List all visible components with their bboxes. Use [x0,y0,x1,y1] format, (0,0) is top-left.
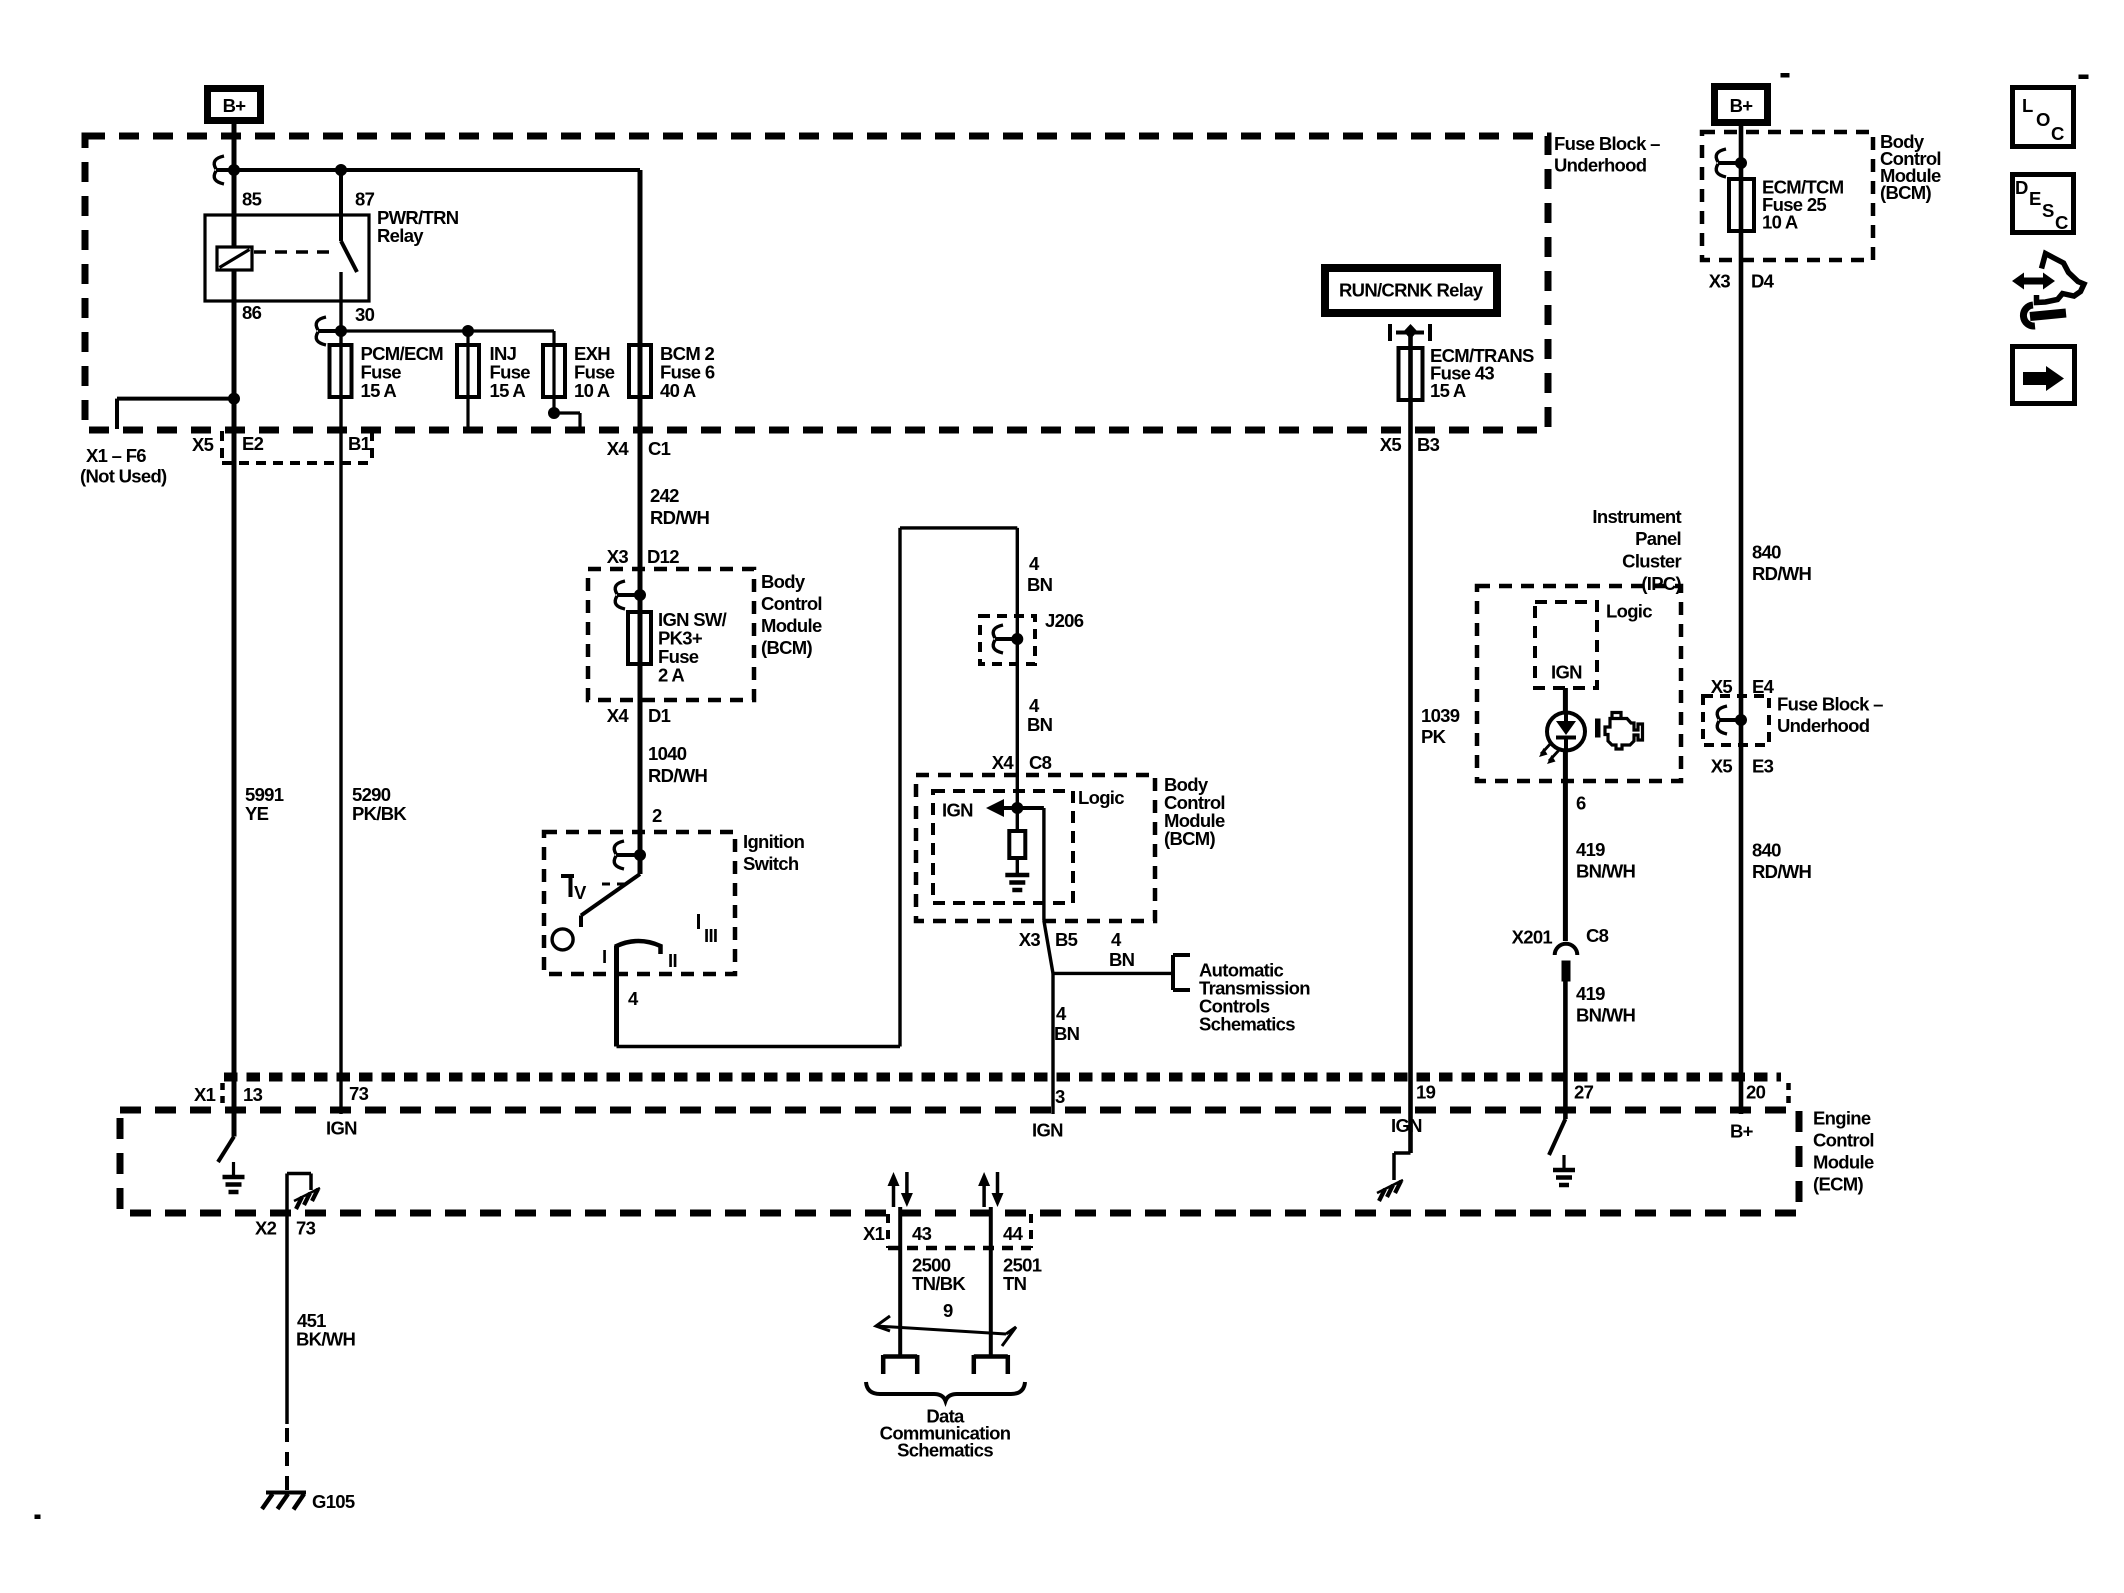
svg-text:J206: J206 [1045,610,1084,631]
svg-text:BK/WH: BK/WH [296,1329,356,1350]
svg-text:(IPC): (IPC) [1641,573,1681,594]
svg-text:B+: B+ [1730,95,1754,116]
svg-text:BN: BN [1027,714,1053,735]
svg-text:Underhood: Underhood [1777,715,1870,736]
svg-text:(BCM): (BCM) [761,637,812,658]
svg-text:X3: X3 [607,546,629,567]
svg-text:Fuse Block –: Fuse Block – [1554,133,1660,154]
svg-text:4: 4 [1056,1003,1067,1024]
svg-text:X3: X3 [1019,929,1041,950]
svg-text:1039: 1039 [1421,705,1460,726]
svg-text:2: 2 [652,805,662,826]
svg-text:B5: B5 [1055,929,1078,950]
svg-text:Body: Body [761,571,806,592]
svg-text:15 A: 15 A [1430,380,1466,401]
svg-text:5991: 5991 [245,784,284,805]
svg-text:C1: C1 [648,438,671,459]
svg-text:5290: 5290 [352,784,391,805]
svg-text:RUN/CRNK Relay: RUN/CRNK Relay [1339,280,1484,301]
svg-text:B3: B3 [1417,434,1440,455]
svg-text:Schematics: Schematics [1199,1014,1295,1035]
svg-text:Relay: Relay [377,225,424,246]
svg-text:19: 19 [1416,1082,1436,1103]
svg-text:X201: X201 [1512,927,1553,948]
svg-text:C: C [2051,123,2064,144]
svg-text:Switch: Switch [743,853,799,874]
svg-text:X4: X4 [992,752,1015,773]
svg-text:Cluster: Cluster [1622,551,1681,572]
svg-text:BN: BN [1054,1023,1080,1044]
svg-text:B+: B+ [223,95,247,116]
svg-text:4: 4 [1111,929,1122,950]
svg-text:10 A: 10 A [574,380,610,401]
svg-text:Panel: Panel [1635,528,1681,549]
svg-text:YE: YE [245,803,269,824]
svg-text:X2: X2 [255,1218,277,1239]
svg-text:Control: Control [761,593,822,614]
svg-text:X4: X4 [607,438,630,459]
svg-text:X5: X5 [192,434,214,455]
svg-text:IGN: IGN [326,1118,357,1139]
svg-text:X1 – F6: X1 – F6 [86,445,146,466]
svg-text:Logic: Logic [1078,787,1124,808]
svg-text:43: 43 [912,1223,932,1244]
svg-text:D: D [2015,177,2028,198]
svg-text:419: 419 [1576,983,1605,1004]
svg-text:C8: C8 [1029,752,1052,773]
svg-text:15 A: 15 A [490,380,526,401]
svg-text:4: 4 [1029,553,1040,574]
svg-text:S: S [2042,200,2054,221]
svg-text:85: 85 [242,189,262,210]
svg-text:TN/BK: TN/BK [912,1273,966,1294]
svg-text:E4: E4 [1752,676,1775,697]
svg-text:E2: E2 [242,433,264,454]
svg-text:Module: Module [1813,1152,1874,1173]
svg-text:Engine: Engine [1813,1108,1871,1129]
svg-text:B1: B1 [348,433,371,454]
svg-text:E: E [2029,188,2041,209]
svg-text:BN: BN [1109,949,1135,970]
svg-text:Fuse Block –: Fuse Block – [1777,694,1883,715]
svg-text:X5: X5 [1711,676,1733,697]
svg-text:87: 87 [355,189,375,210]
svg-text:BN/WH: BN/WH [1576,861,1636,882]
svg-text:10 A: 10 A [1762,212,1798,233]
svg-text:86: 86 [242,302,262,323]
svg-text:1040: 1040 [648,743,687,764]
svg-text:3: 3 [1055,1086,1065,1107]
svg-text:RD/WH: RD/WH [1752,563,1812,584]
svg-text:20: 20 [1746,1082,1766,1103]
svg-text:L: L [2022,95,2033,116]
svg-text:242: 242 [650,485,679,506]
svg-text:44: 44 [1003,1223,1024,1244]
svg-text:X1: X1 [863,1223,885,1244]
svg-text:(Not Used): (Not Used) [80,466,167,487]
svg-text:Module: Module [761,615,822,636]
svg-text:Schematics: Schematics [897,1440,993,1461]
svg-text:2 A: 2 A [658,665,684,686]
svg-text:PK: PK [1421,726,1447,747]
svg-text:(BCM): (BCM) [1164,828,1215,849]
svg-text:840: 840 [1752,542,1781,563]
svg-text:IGN: IGN [1032,1120,1063,1141]
svg-text:E3: E3 [1752,756,1774,777]
svg-text:(ECM): (ECM) [1813,1174,1863,1195]
svg-text:73: 73 [296,1218,316,1239]
svg-text:6: 6 [1576,793,1586,814]
svg-text:I: I [602,946,606,967]
svg-text:D12: D12 [647,546,679,567]
svg-text:Logic: Logic [1606,601,1652,622]
svg-text:BN/WH: BN/WH [1576,1005,1636,1026]
svg-text:II: II [668,950,677,971]
svg-text:V: V [574,882,587,903]
svg-text:40 A: 40 A [660,380,696,401]
svg-text:Control: Control [1813,1130,1874,1151]
svg-text:PK/BK: PK/BK [352,803,407,824]
svg-text:D4: D4 [1751,271,1775,292]
svg-text:III: III [704,925,717,946]
svg-text:IGN: IGN [942,800,973,821]
svg-text:X1: X1 [194,1084,216,1105]
svg-text:840: 840 [1752,840,1781,861]
svg-text:IGN: IGN [1551,662,1582,683]
svg-text:X5: X5 [1711,756,1733,777]
svg-text:RD/WH: RD/WH [1752,861,1812,882]
svg-text:27: 27 [1574,1082,1594,1103]
svg-text:4: 4 [628,988,639,1009]
svg-text:30: 30 [355,304,375,325]
svg-text:Ignition: Ignition [743,831,805,852]
svg-text:Underhood: Underhood [1554,155,1647,176]
svg-text:RD/WH: RD/WH [648,765,708,786]
svg-text:O: O [2036,109,2050,130]
svg-text:C: C [2055,212,2068,233]
svg-text:TN: TN [1003,1273,1027,1294]
svg-text:X5: X5 [1380,434,1402,455]
svg-text:4: 4 [1029,695,1040,716]
svg-text:D1: D1 [648,705,671,726]
svg-text:Instrument: Instrument [1592,506,1681,527]
svg-text:73: 73 [349,1083,369,1104]
svg-text:13: 13 [243,1084,263,1105]
svg-text:G105: G105 [312,1491,355,1512]
svg-text:419: 419 [1576,839,1605,860]
svg-text:(BCM): (BCM) [1880,182,1931,203]
svg-text:C8: C8 [1586,925,1609,946]
svg-text:15 A: 15 A [361,380,397,401]
svg-text:IGN: IGN [1391,1115,1422,1136]
svg-text:9: 9 [943,1300,953,1321]
svg-text:BN: BN [1027,574,1053,595]
svg-text:RD/WH: RD/WH [650,507,710,528]
svg-text:X3: X3 [1709,271,1731,292]
svg-text:B+: B+ [1730,1121,1754,1142]
svg-text:X4: X4 [607,705,630,726]
